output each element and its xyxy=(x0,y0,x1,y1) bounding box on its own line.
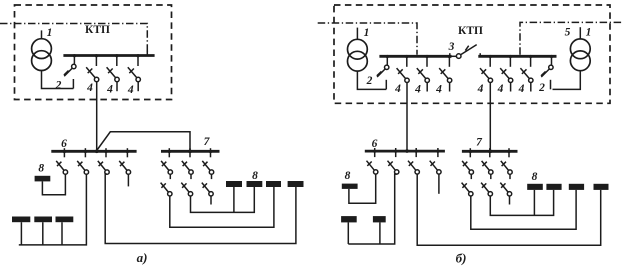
wire transformer1L to switch2 (b) xyxy=(357,71,386,89)
switch 4 #3 (KTP-a) xyxy=(128,54,141,82)
svg-text:4: 4 xyxy=(518,83,525,95)
spare stub b7-col3 (b) xyxy=(509,196,511,205)
cabinet bottom-left #2 (a) xyxy=(34,217,52,223)
stub cabinet bl2 (b) xyxy=(379,222,381,244)
svg-text:2: 2 xyxy=(55,80,62,92)
transformer 1 (diagram a) xyxy=(32,30,52,70)
transformer 5-1 right (b) xyxy=(570,27,590,70)
switch board7 row2 #1 (a) xyxy=(161,174,172,196)
spare stub sw4#5 (b II) xyxy=(510,82,512,91)
svg-text:4: 4 xyxy=(127,84,134,96)
wire switch1-board6 to cabinet8 (a) xyxy=(42,174,65,195)
feeder wire to board7 (b) xyxy=(489,82,491,150)
spare stub from switch4#3 (a) xyxy=(137,81,139,91)
svg-text:4: 4 xyxy=(106,84,113,96)
switch 4 #2 (KTP-b I) xyxy=(417,55,430,83)
spare stub switch4-board6 (a) xyxy=(127,174,129,186)
cabinet right #2 (b) xyxy=(546,184,561,190)
switch 4 #3 (KTP-b I) xyxy=(439,55,452,83)
svg-text:4: 4 xyxy=(414,84,421,96)
supply boundary dash-dot right (diagram b) xyxy=(520,22,623,54)
supply boundary dash-dot left (diagram b) xyxy=(318,23,417,55)
svg-text:4: 4 xyxy=(435,84,442,96)
stub cabinet r1 (b) xyxy=(533,190,535,216)
wire b7-col1 to cabinet r3 (b) xyxy=(471,190,576,229)
svg-text:а): а) xyxy=(137,250,148,265)
svg-text:б): б) xyxy=(456,251,467,266)
switch board6 #2 (a) xyxy=(77,148,88,174)
wire b7-col2 to cabinet r2 (b) xyxy=(490,190,553,216)
switch board7 row1 #1 (a) xyxy=(161,148,172,174)
cabinet right #4 (a) xyxy=(288,181,304,187)
switch board7 row2 #3 (a) xyxy=(202,174,213,196)
wire transformer right to switch2 (b) xyxy=(553,71,581,90)
cabinet right #1 (a) xyxy=(226,181,242,187)
switch board7 row2 #2 (a) xyxy=(181,174,192,196)
busbar section II KTP-b xyxy=(478,55,556,58)
cabinet right #3 (b) xyxy=(569,184,584,190)
busbar section I KTP-b xyxy=(379,55,451,58)
stub cabinet bl#2 (a) xyxy=(42,222,44,245)
switch 4 #1 (KTP-a) xyxy=(86,54,99,82)
switch board7 row1 #2 (a) xyxy=(182,148,193,174)
spare stub b7-col3 (a) xyxy=(210,196,212,205)
cabinet right #4 (b) xyxy=(594,184,609,190)
switch 4 #4 (KTP-b II) xyxy=(480,55,493,83)
svg-text:4: 4 xyxy=(477,83,484,95)
cabinet bottom-left #2 (b) xyxy=(373,216,386,222)
svg-text:8: 8 xyxy=(252,170,258,182)
enclosure KTP-a (dashed boundary) xyxy=(15,5,172,100)
switch board7 row1 #1 (b) xyxy=(462,148,473,174)
svg-text:8: 8 xyxy=(345,170,351,182)
tick bus2 left end (b) xyxy=(479,53,481,56)
feeder wire KTP to board6 (a) xyxy=(96,82,98,151)
enclosure KTP-b (dashed boundary) xyxy=(334,5,610,103)
svg-text:4: 4 xyxy=(497,83,504,95)
switch 4 #1 (KTP-b I) xyxy=(397,55,410,83)
switch board6 #1 (b) xyxy=(367,148,378,174)
switch board7 row1 #3 (a) xyxy=(202,148,213,174)
wire switch2-board6 to bottom trunk (a) xyxy=(19,174,87,245)
switch 2 right (b) xyxy=(541,55,553,89)
busbar board 6 (b) xyxy=(365,149,445,153)
cabinet 8 upper-left (a) xyxy=(35,176,51,182)
svg-text:КТП: КТП xyxy=(458,25,483,37)
transformer 1 left (b) xyxy=(348,28,368,72)
spare stub b6-sw4 (b) xyxy=(438,174,440,194)
cabinet bottom-left #1 (b) xyxy=(341,216,357,222)
switch 2 left (b) xyxy=(377,55,389,89)
spare stub sw4#3 (b I) xyxy=(449,82,451,91)
cabinet 8 upper-left (b) xyxy=(342,184,358,189)
supply boundary dash-dot line (diagram a) xyxy=(0,24,147,54)
svg-text:1: 1 xyxy=(364,27,370,39)
svg-text:1: 1 xyxy=(47,27,53,39)
svg-text:2: 2 xyxy=(366,75,373,87)
switch 4 #6 (KTP-b II) xyxy=(520,55,533,83)
bus tie switch 3 (b) xyxy=(452,45,477,59)
stub cabinet bl#1 (a) xyxy=(20,222,22,245)
link wire board6 to board7 (a) xyxy=(97,132,190,151)
switch board6 #2 (b) xyxy=(388,148,399,174)
switch board6 #1 (a) xyxy=(56,148,67,174)
svg-text:КТП: КТП xyxy=(85,24,110,36)
switch 2 (a) xyxy=(64,54,76,88)
cabinet right #3 (a) xyxy=(266,181,281,187)
stub cabinet bl1 (b) xyxy=(347,222,349,244)
tick bus1 right end (b) xyxy=(449,53,451,56)
svg-text:8: 8 xyxy=(38,163,44,175)
busbar board 6 (a) xyxy=(51,150,136,154)
switch board7 row2 #3 (b) xyxy=(500,174,511,196)
switch board6 #4 (b) xyxy=(430,148,441,174)
spare stub sw4#2 (b I) xyxy=(426,82,428,91)
switch board6 #4 (a) xyxy=(119,148,130,174)
svg-text:5: 5 xyxy=(565,27,571,39)
wire b6-sw2 to bottom trunk (b) xyxy=(348,174,396,244)
wire transformer1 to switch2 (a) xyxy=(42,71,74,89)
svg-text:2: 2 xyxy=(538,82,545,94)
spare stub sw4#6 (b II) xyxy=(530,82,532,91)
wire b6-sw3 long line to cabinet r4 (b) xyxy=(417,174,601,245)
feeder wire to board6 (b) xyxy=(406,82,408,150)
svg-text:1: 1 xyxy=(586,27,592,39)
switch board7 row1 #2 (b) xyxy=(482,148,493,174)
wire switch3-board6 long line to cabinet#4 right (a) xyxy=(105,174,296,244)
cabinet right #1 (b) xyxy=(527,184,543,190)
wire b7-col1 to cabinet r3 (a) xyxy=(170,187,274,227)
busbar board 7 (b) xyxy=(462,150,518,154)
stub cabinet r1 (a) xyxy=(233,187,235,212)
cabinet bottom-left #1 (a) xyxy=(12,217,30,223)
wire b6-sw1 to cabinet8 (b) xyxy=(349,174,376,203)
busbar board 7 (a) xyxy=(161,150,220,154)
busbar 0.4kV KTP-a xyxy=(63,51,154,56)
switch 4 #2 (KTP-a) xyxy=(107,54,120,82)
svg-text:8: 8 xyxy=(532,171,538,183)
switch board6 #3 (b) xyxy=(408,148,419,174)
svg-text:3: 3 xyxy=(448,41,455,53)
cabinet bottom-left #3 (a) xyxy=(56,217,74,223)
wire b7-col2 to cabinet r2 (a) xyxy=(191,187,255,212)
stub cabinet bl#3 (a) xyxy=(61,222,63,245)
cabinet right #2 (a) xyxy=(247,181,263,187)
switch board7 row2 #1 (b) xyxy=(462,174,473,196)
spare stub from switch4#2 (a) xyxy=(116,81,118,91)
svg-text:4: 4 xyxy=(86,82,93,94)
switch board7 row2 #2 (b) xyxy=(481,174,492,196)
svg-text:4: 4 xyxy=(394,83,401,95)
switch board6 #3 (a) xyxy=(98,148,109,174)
switch 4 #5 (KTP-b II) xyxy=(500,55,513,83)
switch board7 row1 #3 (b) xyxy=(501,148,512,174)
